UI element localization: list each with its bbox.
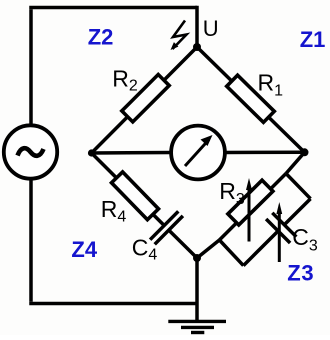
resistor R4	[111, 172, 158, 220]
arrow of adjustable C3	[276, 202, 282, 262]
node U (top)	[193, 43, 201, 51]
svg-text:U: U	[203, 16, 219, 41]
svg-text:R3: R3	[219, 178, 245, 208]
svg-text:Z1: Z1	[300, 27, 326, 52]
svg-text:R1: R1	[258, 70, 284, 100]
wire bridge edge Z1 (top node to right node)	[197, 47, 305, 152]
svg-text:Z2: Z2	[88, 24, 114, 49]
wire bridge edge Z2 (top node to left node)	[92, 47, 198, 153]
arrow of adjustable R3	[246, 178, 252, 242]
node bottom	[193, 254, 201, 262]
wire R3 branch (corner A to corner B)	[219, 174, 286, 241]
svg-text:C3: C3	[292, 224, 318, 255]
resistor R3 (adjustable)	[228, 180, 273, 225]
wire Z4 arm lower segment (C4 plate to bottom node)	[169, 230, 197, 258]
wire C3 branch lower segment (C3 plate to corner D)	[243, 231, 278, 266]
node left	[88, 149, 95, 156]
wire right vertical drop to node U	[195, 6, 199, 47]
wire galvanometer left	[92, 151, 173, 155]
AC source G	[4, 125, 57, 178]
voltage arrow (lightning symbol at U)	[171, 21, 187, 51]
wire bottom rail	[29, 302, 197, 306]
capacitor C4	[150, 211, 183, 244]
wire right node to rhombus corner A	[286, 152, 305, 173]
wire galvanometer right	[224, 151, 305, 155]
wire left vertical top (source to top rail)	[29, 9, 33, 124]
galvanometer P	[171, 126, 225, 180]
wire corner A to corner C	[286, 174, 311, 199]
svg-text:C4: C4	[132, 235, 158, 264]
node right	[301, 148, 309, 156]
resistor R1	[227, 75, 275, 122]
wire corner D to corner B	[219, 240, 243, 266]
capacitor C3 (adjustable)	[266, 213, 296, 243]
wire bottom node to ground	[195, 258, 199, 322]
ground	[168, 321, 226, 332]
svg-text:R2: R2	[112, 66, 138, 95]
wire C3 branch upper segment (corner C to C3 plate)	[284, 199, 310, 225]
resistor R2	[122, 75, 169, 122]
wire top rail	[29, 6, 197, 10]
wire Z4 arm upper segment (left node to C4 plate)	[92, 153, 165, 226]
wire corner B to bottom node	[197, 240, 219, 258]
wire left vertical bottom (source to bottom rail)	[29, 180, 33, 302]
svg-text:R4: R4	[101, 196, 127, 226]
svg-text:Z3: Z3	[287, 261, 314, 286]
svg-text:Z4: Z4	[71, 237, 97, 262]
